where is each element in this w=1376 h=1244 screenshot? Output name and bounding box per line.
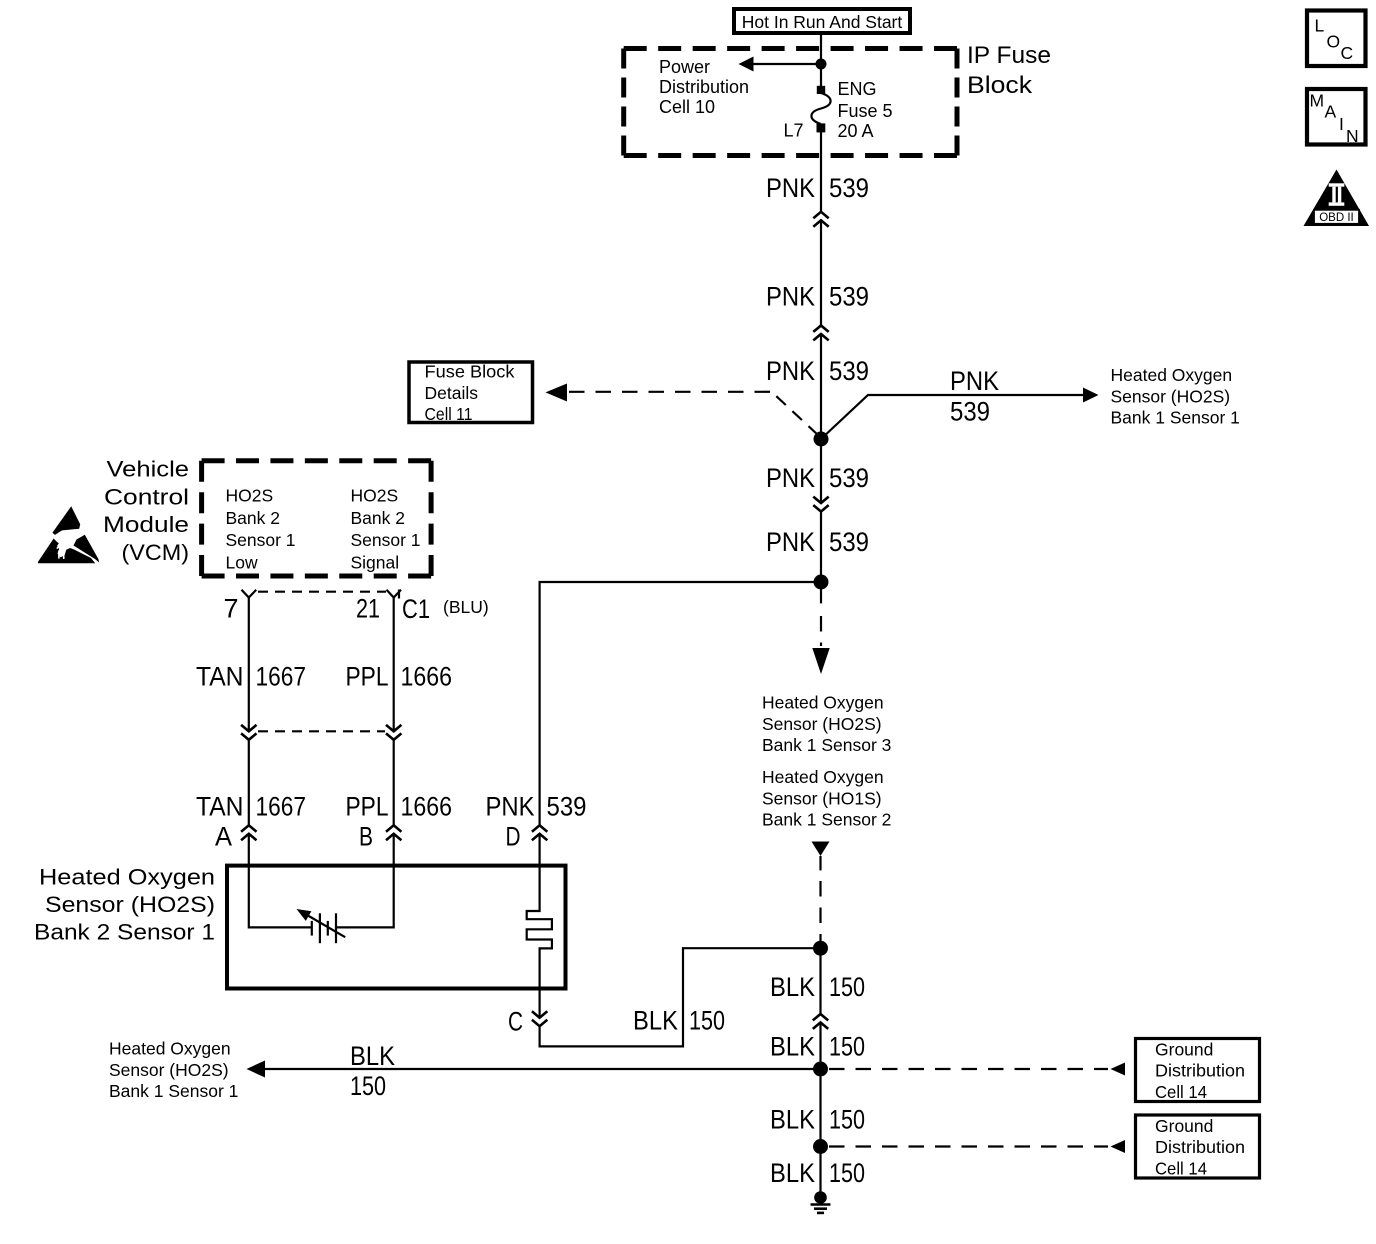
- node J5: [813, 1139, 828, 1154]
- wire C to ground node J3: [540, 948, 821, 1046]
- dashed reference to Ground Distribution (1): [829, 1068, 1108, 1070]
- in-line connector chevrons (1): [813, 212, 828, 227]
- wire from HO1S sensor 2 down to node J3: [819, 856, 821, 944]
- wire label PNK 539 (1): [766, 173, 869, 203]
- svg-text:539: 539: [829, 463, 869, 493]
- svg-text:TAN: TAN: [196, 792, 244, 822]
- svg-text:Heated Oxygen: Heated Oxygen: [39, 865, 215, 890]
- svg-text:Sensor (HO2S): Sensor (HO2S): [1111, 386, 1231, 406]
- node J3: [813, 941, 828, 956]
- node: power distribution tap: [816, 59, 827, 70]
- svg-text:Distribution: Distribution: [659, 77, 749, 97]
- in-line connector on PPL wire: [386, 725, 401, 740]
- in-line connector on TAN wire: [241, 725, 256, 740]
- HO2S Bank 2 Sensor 1 label: [34, 865, 215, 945]
- fuse F5 terminal top: [817, 86, 825, 94]
- wire J3 down: [819, 948, 821, 1014]
- Ground Distribution Cell 14 box (1): [1136, 1039, 1260, 1102]
- node J1: [814, 432, 829, 447]
- svg-text:1666: 1666: [401, 662, 453, 692]
- wire label PNK 539 (4): [766, 463, 869, 493]
- arrow from HO2S Bank 1 Sensor 1: [247, 1061, 266, 1078]
- svg-text:PPL: PPL: [346, 662, 389, 692]
- sensor element wiring (leg A): [249, 866, 311, 927]
- IP Fuse Block dashed box: [624, 49, 957, 156]
- svg-text:M: M: [1310, 91, 1325, 111]
- svg-text:O: O: [1327, 32, 1341, 52]
- svg-text:Heated Oxygen: Heated Oxygen: [1111, 365, 1233, 385]
- pin 7 of connector C1: [242, 590, 257, 598]
- svg-text:Bank 2: Bank 2: [226, 508, 280, 528]
- VCM pin function labels: [226, 486, 296, 573]
- svg-text:Control: Control: [104, 484, 189, 509]
- wire: [820, 220, 822, 325]
- branch label PNK 539: [950, 366, 999, 427]
- svg-text:Sensor 1: Sensor 1: [226, 530, 296, 550]
- sensor variable-voltage cell plates: [312, 913, 336, 943]
- svg-text:Sensor (HO1S): Sensor (HO1S): [762, 788, 882, 808]
- dashed wire down to HO2S Bank 1 Sensor 3: [820, 589, 822, 646]
- svg-text:539: 539: [547, 792, 587, 822]
- in-line connector chevrons on ground wire: [813, 1014, 828, 1029]
- VCM label: [103, 457, 189, 566]
- svg-text:PNK: PNK: [486, 792, 535, 822]
- svg-text:150: 150: [829, 1158, 865, 1188]
- svg-text:Distribution: Distribution: [1155, 1137, 1245, 1157]
- ground wire from HO2S Bank 1 Sensor 1: [264, 1068, 821, 1070]
- svg-text:Heated Oxygen: Heated Oxygen: [109, 1039, 231, 1059]
- wire node to fuse: [820, 64, 822, 87]
- svg-text:OBD II: OBD II: [1319, 212, 1354, 224]
- svg-text:Fuse Block: Fuse Block: [425, 362, 515, 382]
- Vehicle Control Module dashed box: [202, 461, 432, 576]
- svg-text:PNK: PNK: [766, 173, 815, 203]
- svg-text:C: C: [1341, 43, 1354, 63]
- svg-text:Distribution: Distribution: [1155, 1061, 1245, 1081]
- wire label BLK 150 (3): [770, 1105, 865, 1135]
- OBD II legend triangle: [1304, 170, 1370, 227]
- svg-text:Bank 1 Sensor 1: Bank 1 Sensor 1: [1111, 408, 1240, 428]
- svg-text:L7: L7: [783, 121, 803, 141]
- wire B into sensor: [393, 834, 395, 866]
- svg-text:HO2S: HO2S: [226, 486, 274, 506]
- dashed connector C1 bar: [258, 591, 386, 593]
- wire PPL from pin 21: [393, 598, 395, 732]
- svg-text:Cell 14: Cell 14: [1155, 1082, 1207, 1102]
- svg-text:1666: 1666: [401, 792, 453, 822]
- svg-text:PPL: PPL: [346, 792, 389, 822]
- terminal B chevrons: [386, 825, 401, 840]
- MAIN legend box: [1307, 89, 1366, 146]
- fuse labels ENG Fuse 5 20 A: [838, 79, 893, 141]
- svg-text:Bank 2 Sensor 1: Bank 2 Sensor 1: [34, 920, 215, 945]
- svg-text:ENG: ENG: [838, 79, 877, 99]
- Ground Distribution Cell 14 box (2): [1136, 1115, 1260, 1178]
- svg-text:PNK: PNK: [950, 366, 999, 396]
- arrow from HO1S Bank 1 Sensor 2: [812, 842, 830, 857]
- svg-text:7: 7: [223, 594, 238, 624]
- svg-text:Low: Low: [226, 552, 258, 572]
- wire fuse to connector: [820, 132, 822, 212]
- dashed diagonal from node to reference: [774, 394, 818, 435]
- svg-text:539: 539: [829, 356, 869, 386]
- svg-text:Sensor (HO2S): Sensor (HO2S): [109, 1060, 229, 1080]
- svg-text:BLK: BLK: [350, 1041, 395, 1071]
- svg-text:Bank 1 Sensor 3: Bank 1 Sensor 3: [762, 735, 891, 755]
- wire D into sensor: [538, 834, 540, 866]
- svg-text:IP Fuse: IP Fuse: [967, 42, 1051, 69]
- node J2: [814, 575, 829, 590]
- HO2S Bank 1 Sensor 1 destination label: [1111, 365, 1240, 428]
- HO2S Bank 1 Sensor 3 label: [762, 693, 891, 756]
- svg-text:150: 150: [829, 972, 865, 1002]
- arrowhead at Fuse Block Details: [546, 384, 568, 402]
- svg-text:539: 539: [950, 397, 990, 427]
- wire PPL lower: [393, 740, 395, 826]
- wire label BLK 150 (horizontal): [350, 1041, 395, 1101]
- terminal A chevrons: [241, 825, 256, 840]
- svg-text:HO2S: HO2S: [351, 486, 399, 506]
- wire: [820, 512, 822, 583]
- svg-text:C: C: [508, 1007, 523, 1037]
- wire from Hot box into fuse block: [820, 33, 822, 64]
- svg-text:539: 539: [829, 173, 869, 203]
- svg-text:I: I: [1339, 114, 1344, 134]
- svg-text:BLK: BLK: [770, 1032, 815, 1062]
- wire to node J4: [819, 1023, 821, 1070]
- svg-text:150: 150: [829, 1032, 865, 1062]
- svg-text:C1: C1: [402, 594, 430, 624]
- ground G103: [811, 1191, 831, 1213]
- wire J5 to ground: [819, 1147, 821, 1194]
- svg-text:1667: 1667: [256, 662, 307, 692]
- svg-text:Sensor (HO2S): Sensor (HO2S): [762, 714, 882, 734]
- svg-text:BLK: BLK: [633, 1006, 678, 1036]
- LOC legend box: [1307, 11, 1366, 67]
- svg-text:Block: Block: [967, 72, 1033, 99]
- svg-text:BLK: BLK: [770, 1158, 815, 1188]
- wire label BLK 150 (2): [770, 1032, 865, 1062]
- svg-text:Bank 2: Bank 2: [351, 508, 405, 528]
- svg-text:539: 539: [829, 282, 869, 312]
- Power Distribution Cell 10 label: [659, 57, 749, 117]
- svg-text:BLK: BLK: [770, 972, 815, 1002]
- arrowhead to HO2S Bank 1 Sensor 1: [1083, 388, 1099, 403]
- terminal C chevrons: [532, 1011, 547, 1026]
- dashed reference wire to Fuse Block Details: [567, 391, 770, 393]
- Hot In Run And Start box: [734, 9, 910, 33]
- svg-text:B: B: [359, 822, 373, 852]
- dashed reference to Ground Distribution (2): [829, 1145, 1108, 1147]
- fuse F5 terminal bottom: [817, 123, 826, 132]
- in-line connector chevrons (2): [813, 326, 828, 341]
- svg-text:Details: Details: [425, 383, 479, 403]
- svg-text:Module: Module: [103, 512, 189, 537]
- svg-text:150: 150: [350, 1071, 386, 1101]
- svg-text:(VCM): (VCM): [122, 540, 190, 565]
- wire label PNK 539 (2): [766, 282, 869, 312]
- svg-text:Sensor (HO2S): Sensor (HO2S): [45, 892, 215, 917]
- svg-text:150: 150: [689, 1006, 725, 1036]
- wire J4 to J5: [819, 1069, 821, 1147]
- wire label TAN 1667 (1): [196, 662, 306, 692]
- IP Fuse Block label: [967, 42, 1051, 99]
- arrowhead to HO2S Bank 1 Sensor 3: [812, 648, 829, 674]
- in-line connector chevrons (3, facing down): [813, 497, 828, 512]
- wire label BLK 150 (jog): [633, 1006, 725, 1036]
- HO2S Bank 2 Sensor 1 box: [227, 866, 566, 989]
- node J4: [813, 1062, 828, 1077]
- fuse F5 element: [811, 93, 830, 124]
- svg-text:Hot In Run And Start: Hot In Run And Start: [742, 12, 903, 32]
- wire J2 to HO2S heater leg D: [540, 582, 821, 825]
- wire heater to terminal C: [538, 988, 540, 1018]
- svg-text:A: A: [215, 822, 232, 852]
- svg-text:PNK: PNK: [766, 527, 815, 557]
- svg-text:Bank 1 Sensor 1: Bank 1 Sensor 1: [109, 1081, 238, 1101]
- svg-text:Sensor 1: Sensor 1: [351, 530, 421, 550]
- Fuse Block Details box: [409, 362, 533, 425]
- svg-text:Ground: Ground: [1155, 1039, 1213, 1059]
- sensor element wiring (leg B): [336, 866, 394, 927]
- ESD sensitive symbol: [38, 506, 99, 563]
- wire label TAN 1667 (2): [196, 792, 306, 822]
- arrow to Power Distribution: [739, 57, 754, 72]
- svg-text:Ground: Ground: [1155, 1116, 1213, 1136]
- svg-text:N: N: [1346, 126, 1359, 146]
- branch wire to HO2S Bank 1 Sensor 1: [821, 395, 1084, 439]
- wire TAN from pin 7: [248, 598, 250, 732]
- wire label PPL 1666 (2): [346, 792, 453, 822]
- svg-text:Vehicle: Vehicle: [107, 457, 190, 482]
- wire: [820, 334, 822, 439]
- svg-text:150: 150: [829, 1105, 865, 1135]
- svg-text:BLK: BLK: [770, 1105, 815, 1135]
- svg-text:L: L: [1315, 16, 1325, 36]
- svg-text:A: A: [1325, 102, 1337, 122]
- wire TAN lower: [248, 740, 250, 826]
- wire label BLK 150 (4): [770, 1158, 865, 1188]
- wire label PPL 1666 (1): [346, 662, 453, 692]
- svg-text:21: 21: [356, 594, 380, 624]
- svg-text:Signal: Signal: [351, 552, 400, 572]
- HO2S Bank 1 Sensor 1 source label: [109, 1039, 238, 1102]
- pin 21 of connector C1: [387, 590, 402, 598]
- svg-text:PNK: PNK: [766, 463, 815, 493]
- wire label PNK 539 (3): [766, 356, 869, 386]
- variable arrow through cell: [301, 912, 345, 938]
- svg-text:PNK: PNK: [766, 356, 815, 386]
- wire A into sensor: [248, 834, 250, 866]
- svg-text:Heated Oxygen: Heated Oxygen: [762, 767, 884, 787]
- svg-text:Cell 10: Cell 10: [659, 97, 715, 117]
- svg-text:Fuse 5: Fuse 5: [838, 101, 893, 121]
- svg-text:Cell 14: Cell 14: [1155, 1158, 1207, 1178]
- svg-text:Cell 11: Cell 11: [425, 404, 473, 424]
- heater element (leg D): [527, 866, 552, 988]
- wire label BLK 150 (1): [770, 972, 865, 1002]
- wire to Power Distribution: [752, 63, 821, 65]
- wire: [820, 439, 822, 503]
- terminal D chevrons: [532, 825, 547, 840]
- svg-text:Heated Oxygen: Heated Oxygen: [762, 693, 884, 713]
- svg-text:Bank 1 Sensor 2: Bank 1 Sensor 2: [762, 810, 891, 830]
- wire label PNK 539 (leg D): [486, 792, 587, 822]
- svg-text:TAN: TAN: [196, 662, 244, 692]
- dashed in-line connector bar: [258, 730, 385, 732]
- svg-text:20 A: 20 A: [838, 121, 874, 141]
- svg-text:D: D: [506, 822, 521, 852]
- svg-text:1667: 1667: [256, 792, 307, 822]
- svg-text:(BLU): (BLU): [443, 597, 489, 617]
- svg-text:Power: Power: [659, 57, 710, 77]
- HO1S Bank 1 Sensor 2 label: [762, 767, 891, 830]
- wire label PNK 539 (5): [766, 527, 869, 557]
- svg-text:PNK: PNK: [766, 282, 815, 312]
- svg-text:539: 539: [829, 527, 869, 557]
